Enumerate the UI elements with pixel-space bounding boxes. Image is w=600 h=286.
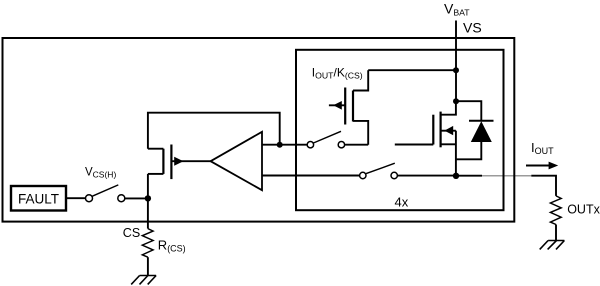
node junction dot output rail <box>453 173 459 179</box>
wire output to OUTx resistor <box>531 176 556 196</box>
svg-text:VS: VS <box>463 20 482 36</box>
resistor OUTx load <box>550 196 561 225</box>
diode D1 body <box>471 121 492 142</box>
wire amp bottom input to switch S2 <box>262 175 360 177</box>
svg-text:OUTx: OUTx <box>567 203 600 217</box>
wire FAULT box to switch S3 <box>66 197 85 199</box>
transistor Q-mirror gate lead with arrow <box>329 104 345 106</box>
node junction dot VS to FET drain and diode <box>453 98 459 104</box>
switch S2 left contact <box>360 172 366 178</box>
ground chassis right <box>548 240 564 242</box>
wire amp top input to switch S1 <box>262 144 307 146</box>
outer device box <box>3 38 515 222</box>
op-amp U1 (points left) <box>211 132 262 190</box>
node CS junction dot <box>145 195 151 201</box>
transistor Q-sense gate lead with arrow to amplifier output <box>171 160 210 162</box>
switch S2 arm <box>366 163 395 174</box>
transistor Q-sense channel <box>162 149 164 174</box>
transistor Q-power drain lead <box>441 101 456 115</box>
wire sense-FET drain top rail <box>148 113 280 149</box>
svg-text:FAULT: FAULT <box>18 192 59 207</box>
ground chassis left <box>140 275 157 277</box>
transistor Q-sense drain lead <box>148 148 164 150</box>
arrow IOUT <box>526 165 550 167</box>
inner 4x block box <box>296 50 504 210</box>
transistor Q-sense source lead <box>148 173 164 175</box>
wire output rail through box edges (thin) <box>456 175 482 177</box>
switch S3 right contact <box>118 195 125 202</box>
wire sense-FET source down to CS node <box>147 174 149 199</box>
wire S1 to mirror FET source <box>345 144 369 146</box>
wire CS node down to RCS <box>147 198 149 228</box>
switch S1 arm <box>313 131 341 143</box>
switch S3 arm <box>92 185 118 196</box>
wire S3 to CS node <box>125 197 148 199</box>
transistor Q-mirror channel <box>352 91 354 122</box>
wire RCS to ground <box>147 257 149 275</box>
transistor Q-mirror drain lead <box>353 70 368 90</box>
transistor Q-power channel <box>440 112 442 148</box>
svg-text:4x: 4x <box>395 195 409 210</box>
wire diode anode lead <box>456 142 481 159</box>
switch S2 right contact <box>391 172 397 178</box>
transistor Q-mirror IOUT/K(CS) gate plate <box>344 88 346 125</box>
transistor Q-power source lead <box>441 143 456 145</box>
wire diode cathode lead <box>456 101 481 121</box>
FAULT output box <box>11 186 66 211</box>
wire S2 to output node <box>397 175 456 177</box>
wire resistor to ground <box>555 225 557 241</box>
switch S3 left contact <box>86 195 93 202</box>
resistor RCS <box>142 229 153 258</box>
transistor Q-mirror source lead <box>353 121 368 145</box>
switch S1 left contact <box>307 142 313 148</box>
wire inner top rail from mirror FET drain to VS line <box>368 69 456 71</box>
node junction dot on VS at top rail <box>453 67 459 73</box>
wire power FET gate lead <box>395 144 434 146</box>
diode D1 cathode bar <box>469 120 494 122</box>
svg-text:CS: CS <box>123 226 140 240</box>
node junction dot amp top input <box>277 142 283 148</box>
switch S1 right contact <box>338 142 344 148</box>
transistor Q-power body arrow <box>441 130 456 132</box>
wire VS vertical from VBAT down to power FET drain node <box>455 21 457 102</box>
transistor Q-sense gate plate <box>170 145 172 180</box>
transistor Q-power gate plate <box>432 115 434 145</box>
wire power FET source down to output rail <box>455 131 457 176</box>
